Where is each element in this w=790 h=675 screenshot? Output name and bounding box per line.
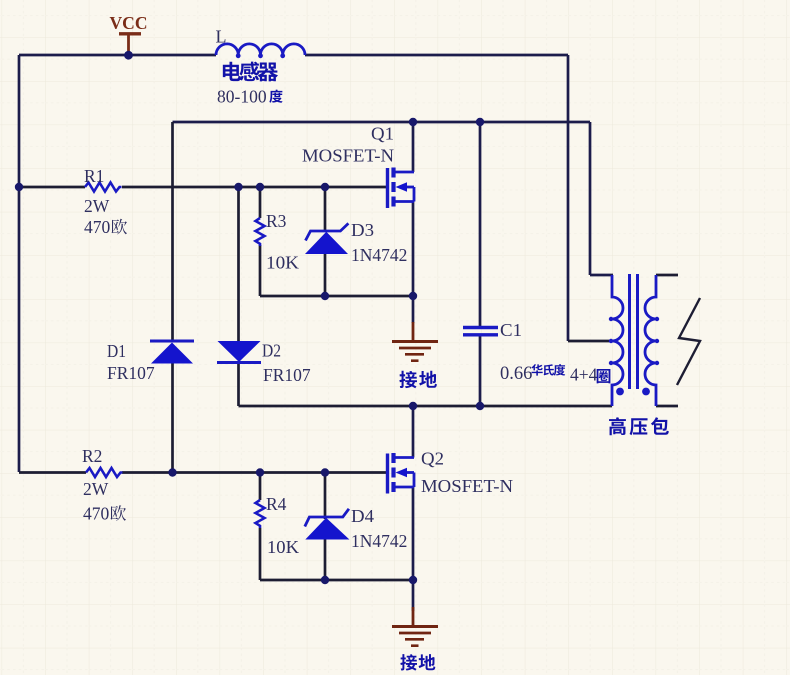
label 0.66华氏度	[500, 364, 565, 384]
wire	[324, 540, 327, 581]
svg-text:4+4: 4+4	[570, 365, 598, 385]
diode D1	[107, 341, 194, 383]
svg-text:MOSFET-N: MOSFET-N	[302, 146, 394, 166]
junction	[409, 402, 417, 410]
svg-text:VCC: VCC	[110, 13, 148, 33]
transistor Q2	[388, 453, 415, 494]
svg-text:R4: R4	[266, 494, 287, 514]
junction	[409, 292, 417, 300]
junction	[476, 402, 484, 410]
capacitor C1	[463, 320, 522, 340]
svg-text:1N4742: 1N4742	[351, 531, 407, 551]
junction	[256, 183, 264, 191]
svg-text:L: L	[216, 27, 227, 47]
wire	[260, 295, 413, 298]
junction	[409, 118, 417, 126]
wire	[412, 580, 415, 611]
junction	[15, 183, 23, 191]
wire	[237, 363, 240, 407]
junction	[321, 292, 329, 300]
wire	[568, 340, 613, 343]
svg-text:D4: D4	[351, 506, 374, 526]
resistor R2	[82, 446, 126, 524]
svg-text:Q2: Q2	[421, 449, 444, 469]
svg-text:FR107: FR107	[263, 365, 311, 385]
svg-text:2W: 2W	[84, 196, 110, 216]
wire	[259, 473, 262, 501]
wire	[122, 471, 386, 474]
wire	[412, 406, 415, 458]
wire	[305, 54, 568, 57]
wire	[173, 121, 591, 124]
wire	[412, 202, 415, 324]
wire	[479, 122, 482, 327]
label 80-100度	[217, 87, 283, 107]
spark gap	[677, 298, 700, 385]
junction	[409, 576, 417, 584]
svg-text:R1: R1	[84, 166, 104, 186]
svg-text:D2: D2	[262, 341, 281, 361]
wire	[324, 187, 327, 231]
svg-text:470: 470	[83, 504, 110, 524]
wire	[237, 187, 240, 341]
wire	[18, 55, 21, 472]
svg-text:FR107: FR107	[107, 363, 155, 383]
wire	[259, 528, 262, 580]
label 4+4圈	[570, 365, 610, 385]
resistor R4	[256, 494, 300, 557]
label 高压包	[609, 417, 669, 435]
wire	[19, 186, 85, 189]
wire	[19, 54, 216, 57]
wire	[479, 335, 482, 406]
svg-text:R2: R2	[82, 446, 102, 466]
junction	[321, 576, 329, 584]
wire	[122, 186, 386, 189]
power VCC	[110, 13, 148, 55]
zener D3	[305, 220, 407, 265]
wire	[260, 579, 413, 582]
svg-text:R3: R3	[266, 211, 287, 231]
resistor R1	[84, 166, 127, 237]
svg-text:D3: D3	[351, 220, 374, 240]
junction	[234, 183, 242, 191]
wire	[589, 122, 592, 275]
svg-text:2W: 2W	[83, 479, 109, 499]
wire	[656, 274, 678, 277]
wire	[656, 405, 678, 408]
wire	[171, 122, 174, 341]
wire	[171, 364, 174, 473]
resistor R3	[256, 211, 300, 273]
node VCC junction	[124, 51, 133, 60]
wire	[239, 405, 613, 408]
transistor Q1	[388, 168, 415, 209]
wire	[259, 187, 262, 218]
wire	[590, 274, 613, 277]
svg-text:MOSFET-N: MOSFET-N	[421, 476, 513, 496]
svg-text:0.66: 0.66	[500, 364, 532, 384]
junction	[256, 468, 264, 476]
transformer T1 高压包	[609, 274, 659, 406]
junction	[321, 183, 329, 191]
svg-text:470: 470	[84, 217, 111, 237]
svg-text:10K: 10K	[266, 253, 299, 273]
wire	[412, 122, 415, 172]
junction	[321, 468, 329, 476]
wire	[324, 254, 327, 296]
wire	[324, 473, 327, 520]
label 电感器	[223, 62, 278, 82]
junction	[168, 468, 176, 476]
wire	[412, 487, 415, 580]
svg-text:80-100: 80-100	[217, 87, 267, 107]
svg-text:D1: D1	[107, 341, 126, 361]
svg-text:C1: C1	[500, 320, 522, 340]
ground	[392, 322, 438, 361]
wire	[19, 471, 86, 474]
ground	[392, 607, 438, 646]
junction	[476, 118, 484, 126]
zener D4	[305, 506, 408, 551]
wire	[259, 245, 262, 296]
diode D2	[217, 341, 311, 386]
svg-text:10K: 10K	[267, 537, 299, 557]
svg-text:1N4742: 1N4742	[351, 245, 407, 265]
svg-text:Q1: Q1	[371, 124, 394, 144]
inductor L	[216, 27, 306, 59]
wire	[567, 55, 570, 341]
